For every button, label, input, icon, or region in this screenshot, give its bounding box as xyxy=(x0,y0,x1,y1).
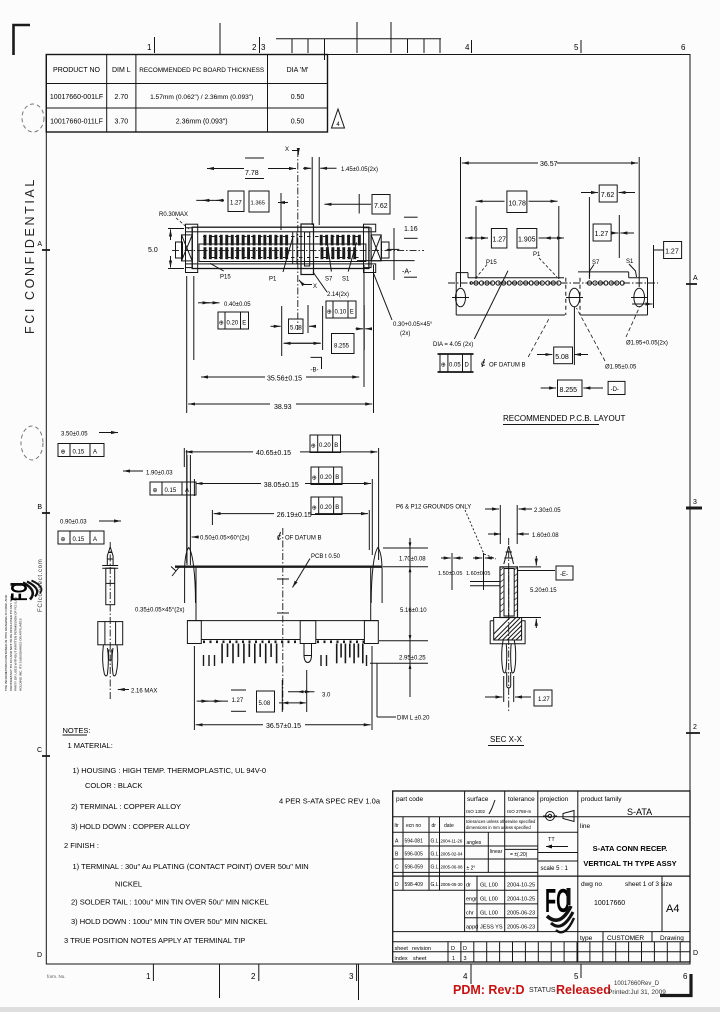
svg-text:S-ATA CONN RECEP.: S-ATA CONN RECEP. xyxy=(593,844,668,853)
svg-text:10017660-011LF: 10017660-011LF xyxy=(50,119,103,126)
svg-text:Released: Released xyxy=(556,983,611,997)
svg-text:8.255: 8.255 xyxy=(334,344,350,350)
svg-text:P15: P15 xyxy=(486,260,497,266)
svg-text:⊕: ⊕ xyxy=(327,310,332,316)
svg-text:2 FINISH :: 2 FINISH : xyxy=(64,841,99,850)
svg-text:CUSTOMER: CUSTOMER xyxy=(607,935,644,942)
svg-text:G.L: G.L xyxy=(431,839,439,845)
svg-text:1.27: 1.27 xyxy=(492,237,506,244)
svg-text:6: 6 xyxy=(683,972,688,981)
svg-text:1.60±0.08: 1.60±0.08 xyxy=(532,533,559,539)
svg-text:2005-06-23: 2005-06-23 xyxy=(507,911,535,917)
svg-text:2.30±0.05: 2.30±0.05 xyxy=(534,508,561,514)
svg-text:1 MATERIAL:: 1 MATERIAL: xyxy=(68,741,113,750)
svg-text:ltr: ltr xyxy=(395,823,400,829)
svg-text:1: 1 xyxy=(147,43,152,52)
svg-text:scale 5 : 1: scale 5 : 1 xyxy=(541,866,569,872)
svg-text:G.L: G.L xyxy=(431,852,439,858)
svg-text:E: E xyxy=(350,309,354,315)
svg-text:38.93: 38.93 xyxy=(274,404,292,411)
svg-text:10.78: 10.78 xyxy=(508,201,526,208)
svg-text:C: C xyxy=(481,362,486,368)
svg-text:⊕: ⊕ xyxy=(61,537,66,543)
svg-text:1.60±0.05: 1.60±0.05 xyxy=(466,571,490,577)
svg-text:DIA = 4.05 (2x): DIA = 4.05 (2x) xyxy=(433,342,473,348)
svg-text:GL L00: GL L00 xyxy=(480,883,498,889)
svg-text:sheet: sheet xyxy=(395,946,409,952)
svg-text:A4: A4 xyxy=(666,903,679,915)
svg-text:A: A xyxy=(37,241,42,248)
svg-text:0.20: 0.20 xyxy=(320,505,332,511)
svg-text:(2x): (2x) xyxy=(400,331,410,337)
svg-text:7.78: 7.78 xyxy=(245,170,259,177)
svg-text:2.16 MAX: 2.16 MAX xyxy=(131,689,157,695)
svg-text:PROPRIETARY TO FCI AND NOT TO: PROPRIETARY TO FCI AND NOT TO BE DISCLOS… xyxy=(9,595,13,691)
svg-text:⊕: ⊕ xyxy=(312,505,317,511)
svg-text:engr: engr xyxy=(466,897,477,903)
svg-text:angles: angles xyxy=(467,840,482,846)
svg-text:PDM: Rev:D: PDM: Rev:D xyxy=(453,983,525,997)
svg-text:PRODUCT NO: PRODUCT NO xyxy=(53,67,100,74)
svg-text:D: D xyxy=(451,946,455,952)
svg-text:Ø1.95±0.05: Ø1.95±0.05 xyxy=(605,365,637,371)
svg-text:1.27: 1.27 xyxy=(595,231,609,238)
svg-text:3.0: 3.0 xyxy=(322,693,331,699)
svg-text:2: 2 xyxy=(252,43,257,52)
svg-text:5: 5 xyxy=(574,43,579,52)
svg-text:2) TERMINAL : COPPER ALLOY: 2) TERMINAL : COPPER ALLOY xyxy=(71,802,181,811)
svg-text:chr: chr xyxy=(466,911,474,917)
svg-text:0.05: 0.05 xyxy=(449,362,461,368)
svg-text:TT: TT xyxy=(548,837,555,843)
svg-text:3: 3 xyxy=(261,43,266,52)
svg-text:STATUS: STATUS xyxy=(529,987,556,994)
svg-text:596-005: 596-005 xyxy=(405,852,424,858)
svg-text:1.90±0.03: 1.90±0.03 xyxy=(146,471,173,477)
svg-text:index: index xyxy=(395,956,408,962)
svg-text:0.50: 0.50 xyxy=(291,94,305,101)
svg-text:2005-06-08: 2005-06-08 xyxy=(441,865,464,870)
svg-text:0.15: 0.15 xyxy=(73,537,85,543)
svg-text:5.20±0.15: 5.20±0.15 xyxy=(530,588,557,594)
svg-text:part code: part code xyxy=(396,796,423,803)
svg-text:2.36mm (0.093"): 2.36mm (0.093") xyxy=(176,119,228,126)
svg-text:-B-: -B- xyxy=(311,368,319,374)
svg-text:R0.30MAX: R0.30MAX xyxy=(159,212,188,218)
svg-text:0.40±0.05: 0.40±0.05 xyxy=(224,302,251,308)
svg-text:OF DATUM B: OF DATUM B xyxy=(489,363,526,369)
svg-text:2005-06-23: 2005-06-23 xyxy=(507,925,535,931)
svg-text:PARTY OR USED WITHOUT WRITTEN: PARTY OR USED WITHOUT WRITTEN PERMISSION… xyxy=(14,597,18,691)
svg-text:598-409: 598-409 xyxy=(405,882,424,888)
svg-text:= ±(.20): = ±(.20) xyxy=(510,852,528,858)
svg-text:2004-10-25: 2004-10-25 xyxy=(507,897,535,903)
svg-text:1.57mm (0.062") / 2.36mm (0.09: 1.57mm (0.062") / 2.36mm (0.093") xyxy=(150,94,253,101)
svg-text:0.20: 0.20 xyxy=(320,475,332,481)
svg-text:A: A xyxy=(693,275,698,282)
svg-text:tolerances unless otherwise sp: tolerances unless otherwise specified xyxy=(466,819,536,824)
svg-text:B: B xyxy=(335,505,339,511)
svg-text:sheet: sheet xyxy=(413,956,427,962)
svg-text:P6 & P12 GROUNDS ONLY: P6 & P12 GROUNDS ONLY xyxy=(396,505,471,511)
svg-text:40.65±0.15: 40.65±0.15 xyxy=(256,450,291,457)
svg-text:dimensions in mm unless specif: dimensions in mm unless specified xyxy=(466,825,531,830)
svg-text:B: B xyxy=(335,475,339,481)
svg-text:2004-10-25: 2004-10-25 xyxy=(507,883,535,889)
svg-text:1.45±0.05(2x): 1.45±0.05(2x) xyxy=(341,167,378,173)
svg-text:1) TERMINAL : 30u" Au PLATING: 1) TERMINAL : 30u" Au PLATING (CONTACT P… xyxy=(73,862,309,871)
svg-text:X: X xyxy=(285,147,289,153)
svg-text:S7: S7 xyxy=(325,277,333,283)
svg-text:0.15: 0.15 xyxy=(73,450,85,456)
svg-text:GL L00: GL L00 xyxy=(480,911,498,917)
svg-text:A: A xyxy=(93,450,97,456)
svg-text:D: D xyxy=(395,882,399,888)
svg-text:D: D xyxy=(465,362,470,368)
svg-text:C: C xyxy=(37,747,42,754)
svg-text:1.70±0.08: 1.70±0.08 xyxy=(399,557,426,563)
svg-text:0.35±0.05×45°(2x): 0.35±0.05×45°(2x) xyxy=(135,608,185,614)
svg-text:form. No.: form. No. xyxy=(47,974,66,979)
svg-text:36.57±0.15: 36.57±0.15 xyxy=(266,723,301,730)
svg-text:1: 1 xyxy=(146,972,151,981)
svg-text:-A-: -A- xyxy=(402,269,412,276)
svg-text:0.50: 0.50 xyxy=(291,119,305,126)
svg-text:DIA 'M': DIA 'M' xyxy=(287,67,309,74)
svg-text:0.20: 0.20 xyxy=(227,320,239,326)
svg-text:35.56±0.15: 35.56±0.15 xyxy=(267,376,302,383)
svg-text:projection: projection xyxy=(540,796,569,803)
svg-text:Printed:Jul 31, 2009: Printed:Jul 31, 2009 xyxy=(608,989,666,996)
svg-text:6: 6 xyxy=(681,43,686,52)
svg-text:line: line xyxy=(580,823,591,830)
svg-text:P15: P15 xyxy=(220,275,231,281)
svg-text:2006-05-30: 2006-05-30 xyxy=(441,882,464,887)
svg-text:surface: surface xyxy=(467,796,489,803)
svg-text:7.62: 7.62 xyxy=(601,192,615,199)
svg-text:DIM L: DIM L xyxy=(112,67,131,74)
svg-text:date: date xyxy=(444,823,454,829)
svg-text:COLOR : BLACK: COLOR : BLACK xyxy=(85,781,143,790)
svg-text:ISO 2768-m: ISO 2768-m xyxy=(507,809,532,814)
svg-text:dr: dr xyxy=(466,883,471,889)
svg-text:B: B xyxy=(334,443,338,449)
svg-text:D: D xyxy=(693,950,698,957)
svg-text:VERTICAL TH TYPE ASSY: VERTICAL TH TYPE ASSY xyxy=(583,859,676,868)
svg-text:revision: revision xyxy=(412,946,431,952)
svg-text:type: type xyxy=(580,935,593,942)
svg-text:2005-02-04: 2005-02-04 xyxy=(441,852,464,857)
svg-text:5.0: 5.0 xyxy=(148,247,158,254)
svg-text:2004-11-26: 2004-11-26 xyxy=(441,839,463,844)
svg-text:A: A xyxy=(185,488,189,494)
svg-text:S1: S1 xyxy=(626,259,634,265)
svg-text:36.57: 36.57 xyxy=(540,161,558,168)
svg-text:5.08: 5.08 xyxy=(555,354,569,361)
svg-text:5.08: 5.08 xyxy=(290,326,302,332)
svg-text:0.15: 0.15 xyxy=(165,488,177,494)
svg-text:product family: product family xyxy=(581,796,622,803)
svg-text:D: D xyxy=(463,946,467,952)
svg-text:RECOMMENDED PC BOARD THICKNESS: RECOMMENDED PC BOARD THICKNESS xyxy=(139,67,264,74)
svg-text:NOTES:: NOTES: xyxy=(63,726,91,735)
svg-text:3) HOLD DOWN : 100u" MIN TIN O: 3) HOLD DOWN : 100u" MIN TIN OVER 50u" M… xyxy=(71,917,267,926)
svg-text:4: 4 xyxy=(463,972,468,981)
svg-text:4 PER S-ATA SPEC REV 1.0a: 4 PER S-ATA SPEC REV 1.0a xyxy=(279,797,381,806)
svg-text:C: C xyxy=(395,865,399,871)
svg-text:1.16: 1.16 xyxy=(404,226,418,233)
svg-text:3.70: 3.70 xyxy=(114,119,128,126)
svg-text:-E-: -E- xyxy=(560,572,568,578)
svg-text:THE INFORMATION CONTAINED IN T: THE INFORMATION CONTAINED IN THIS DRAWIN… xyxy=(4,594,8,691)
svg-text:5.08: 5.08 xyxy=(259,701,271,707)
svg-text:JESS YS: JESS YS xyxy=(480,925,503,931)
svg-text:⊕: ⊕ xyxy=(311,443,316,449)
svg-text:1.27: 1.27 xyxy=(230,201,242,207)
svg-text:dr: dr xyxy=(432,823,437,829)
svg-text:OF DATUM B: OF DATUM B xyxy=(285,536,322,542)
svg-text:P1: P1 xyxy=(269,277,277,283)
svg-text:0.90±0.03: 0.90±0.03 xyxy=(60,520,87,526)
svg-text:2.70: 2.70 xyxy=(114,94,128,101)
svg-text:2: 2 xyxy=(251,972,256,981)
svg-text:appd: appd xyxy=(466,925,478,931)
svg-text:1: 1 xyxy=(452,956,455,962)
svg-text:0.30+0.05×45°: 0.30+0.05×45° xyxy=(393,322,433,328)
svg-text:1) HOUSING : HIGH TEMP. THERMO: 1) HOUSING : HIGH TEMP. THERMOPLASTIC, U… xyxy=(73,766,267,775)
svg-text:1.50±0.05: 1.50±0.05 xyxy=(438,571,462,577)
svg-text:2.95±0.25: 2.95±0.25 xyxy=(399,656,426,662)
svg-text:D: D xyxy=(37,952,42,959)
svg-text:594-081: 594-081 xyxy=(405,839,424,845)
svg-text:26.19±0.15: 26.19±0.15 xyxy=(277,512,312,519)
svg-text:1.27: 1.27 xyxy=(232,698,244,704)
svg-text:S1: S1 xyxy=(342,277,350,283)
svg-text:SEC X-X: SEC X-X xyxy=(490,735,523,744)
svg-text:3 TRUE POSITION NOTES APPLY A: 3 TRUE POSITION NOTES APPLY AT TERMINAL … xyxy=(64,936,245,945)
svg-text:1.365: 1.365 xyxy=(251,201,266,207)
svg-text:1.27: 1.27 xyxy=(665,249,679,256)
svg-text:dwg no: dwg no xyxy=(581,881,602,888)
svg-text:5: 5 xyxy=(574,972,579,981)
svg-text:3: 3 xyxy=(464,956,467,962)
svg-text:sheet 1 of 3 size: sheet 1 of 3 size xyxy=(625,881,673,888)
svg-text:RECOMMENDED P.C.B. LAYOUT: RECOMMENDED P.C.B. LAYOUT xyxy=(503,414,626,423)
svg-text:PCB t 0.50: PCB t 0.50 xyxy=(311,554,341,560)
svg-text:NICKEL: NICKEL xyxy=(115,880,142,889)
svg-text:1.27: 1.27 xyxy=(538,697,550,703)
svg-text:DIM L ±0.20: DIM L ±0.20 xyxy=(397,716,430,722)
svg-text:5.16±0.10: 5.16±0.10 xyxy=(400,608,427,614)
svg-text:3: 3 xyxy=(349,972,354,981)
svg-text:C: C xyxy=(277,536,282,542)
svg-text:2.14(2x): 2.14(2x) xyxy=(327,292,349,298)
svg-text:10017660-001LF: 10017660-001LF xyxy=(50,94,103,101)
svg-text:ecn no: ecn no xyxy=(406,823,421,829)
svg-text:S-ATA: S-ATA xyxy=(627,807,652,817)
svg-text:tolerance: tolerance xyxy=(508,796,535,803)
svg-text:FCI CONFIDENTIAL: FCI CONFIDENTIAL xyxy=(23,177,37,334)
svg-text:⊕: ⊕ xyxy=(61,450,66,456)
svg-text:10017660: 10017660 xyxy=(594,900,625,907)
svg-text:B: B xyxy=(37,504,42,511)
svg-text:0.10: 0.10 xyxy=(335,309,347,315)
svg-text:-D-: -D- xyxy=(611,387,619,393)
svg-text:FCIconnect.com: FCIconnect.com xyxy=(38,559,44,612)
svg-text:E: E xyxy=(242,320,246,326)
svg-text:38.05±0.15: 38.05±0.15 xyxy=(264,482,299,489)
svg-text:Drawing: Drawing xyxy=(660,935,684,942)
svg-text:⊕: ⊕ xyxy=(219,321,224,327)
svg-text:⊕: ⊕ xyxy=(312,475,317,481)
svg-text:Ø1.95+0.05(2x): Ø1.95+0.05(2x) xyxy=(626,341,668,347)
svg-text:GL L00: GL L00 xyxy=(480,897,498,903)
svg-text:0.50±0.05×60°(2x): 0.50±0.05×60°(2x) xyxy=(200,536,250,542)
svg-text:596-059: 596-059 xyxy=(405,865,424,871)
svg-text:3.50±0.05: 3.50±0.05 xyxy=(61,432,88,438)
svg-text:⊕: ⊕ xyxy=(441,363,446,369)
svg-text:X: X xyxy=(313,284,317,290)
svg-text:P1: P1 xyxy=(533,252,541,258)
svg-text:4: 4 xyxy=(465,43,470,52)
svg-text:A: A xyxy=(93,537,97,543)
svg-text:0.20: 0.20 xyxy=(319,443,331,449)
svg-text:3: 3 xyxy=(693,499,697,506)
svg-text:⊕: ⊕ xyxy=(153,488,158,494)
svg-text:3) HOLD DOWN : COPPER ALLOY: 3) HOLD DOWN : COPPER ALLOY xyxy=(71,822,190,831)
svg-text:HOLDING INC. ITS SUBSIDIARIES: HOLDING INC. ITS SUBSIDIARIES OR AFFILIA… xyxy=(18,618,22,691)
svg-text:G.L: G.L xyxy=(431,865,439,871)
svg-text:G.L: G.L xyxy=(431,882,439,888)
svg-text:8.255: 8.255 xyxy=(560,387,578,394)
svg-text:2) SOLDER TAIL : 100u" MIN TIN: 2) SOLDER TAIL : 100u" MIN TIN OVER 50u"… xyxy=(71,898,269,907)
svg-text:10017660Rev_D: 10017660Rev_D xyxy=(614,981,660,987)
svg-text:1.905: 1.905 xyxy=(518,237,536,244)
svg-text:± 2°: ± 2° xyxy=(467,866,476,872)
svg-text:2: 2 xyxy=(693,724,697,731)
svg-text:linear: linear xyxy=(490,849,503,855)
svg-text:ISO 1302: ISO 1302 xyxy=(466,809,486,814)
svg-text:7.62: 7.62 xyxy=(374,203,388,210)
